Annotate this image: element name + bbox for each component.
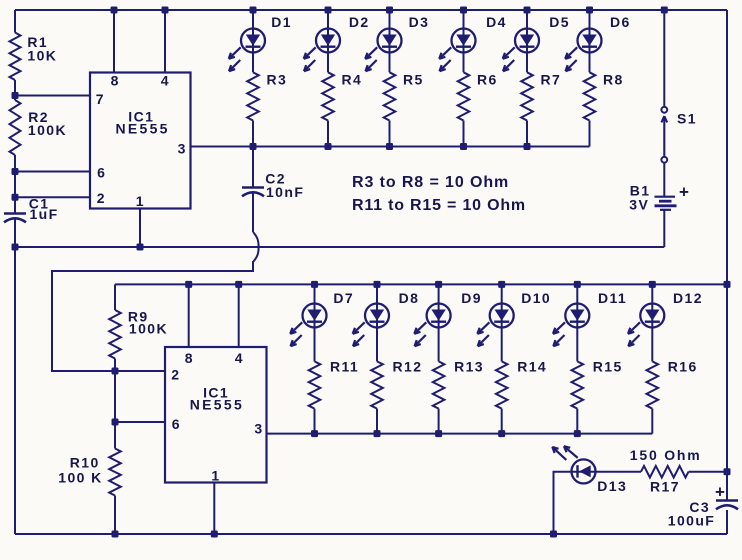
svg-text:8: 8 (111, 72, 119, 88)
svg-text:R16: R16 (668, 359, 698, 375)
svg-text:R11 to R15 = 10 Ohm: R11 to R15 = 10 Ohm (352, 197, 526, 214)
svg-text:150 Ohm: 150 Ohm (630, 447, 702, 463)
svg-text:1uF: 1uF (30, 206, 59, 222)
svg-text:D10: D10 (521, 290, 551, 306)
svg-text:D8: D8 (399, 290, 420, 306)
svg-text:1: 1 (136, 193, 144, 209)
svg-text:4: 4 (235, 350, 243, 366)
svg-text:D5: D5 (549, 14, 570, 30)
svg-text:+: + (715, 483, 725, 502)
svg-text:R14: R14 (517, 359, 547, 375)
svg-text:R6: R6 (477, 72, 498, 88)
svg-text:3: 3 (254, 420, 262, 436)
svg-text:D2: D2 (349, 14, 370, 30)
svg-text:10K: 10K (27, 48, 57, 64)
svg-text:6: 6 (172, 416, 180, 432)
svg-text:R10: R10 (70, 454, 100, 470)
svg-text:R12: R12 (393, 359, 423, 375)
svg-text:NE555: NE555 (115, 120, 169, 136)
svg-text:S1: S1 (677, 111, 697, 127)
svg-text:R8: R8 (603, 72, 624, 88)
svg-text:D11: D11 (598, 290, 627, 306)
svg-text:D3: D3 (409, 14, 430, 30)
svg-text:R11: R11 (330, 359, 359, 375)
svg-text:R13: R13 (454, 359, 484, 375)
svg-text:R4: R4 (342, 72, 363, 88)
svg-text:3V: 3V (629, 196, 649, 212)
svg-text:D4: D4 (486, 14, 507, 30)
svg-text:6: 6 (97, 165, 105, 181)
svg-text:3: 3 (178, 141, 186, 157)
svg-text:100K: 100K (129, 321, 168, 337)
svg-text:10nF: 10nF (266, 184, 304, 200)
svg-text:2: 2 (97, 190, 105, 206)
svg-text:100uF: 100uF (668, 513, 715, 529)
svg-text:D13: D13 (597, 478, 627, 494)
svg-text:D7: D7 (333, 290, 354, 306)
svg-text:2: 2 (171, 367, 179, 383)
svg-text:1: 1 (211, 467, 219, 483)
svg-text:R3 to R8 = 10 Ohm: R3 to R8 = 10 Ohm (352, 174, 509, 191)
svg-text:8: 8 (185, 350, 193, 366)
svg-text:D1: D1 (271, 14, 292, 30)
svg-text:NE555: NE555 (190, 396, 244, 412)
svg-text:D12: D12 (673, 290, 703, 306)
svg-text:R3: R3 (267, 72, 288, 88)
svg-text:4: 4 (161, 72, 169, 88)
svg-text:R7: R7 (541, 72, 562, 88)
svg-text:+: + (679, 183, 689, 202)
svg-text:R17: R17 (650, 479, 680, 495)
svg-text:R5: R5 (403, 72, 424, 88)
svg-text:D9: D9 (461, 290, 482, 306)
svg-text:7: 7 (96, 91, 104, 107)
svg-text:100 K: 100 K (58, 469, 102, 485)
svg-text:100K: 100K (28, 122, 67, 138)
svg-text:D6: D6 (610, 14, 631, 30)
svg-text:R15: R15 (593, 359, 623, 375)
